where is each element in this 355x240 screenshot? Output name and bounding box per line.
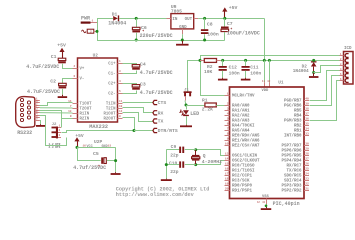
svg-text:SDI/RC4: SDI/RC4 bbox=[284, 178, 302, 183]
junction C10 left bbox=[165, 163, 168, 166]
svg-text:T1IN: T1IN bbox=[106, 103, 116, 107]
svg-text:V-: V- bbox=[80, 78, 85, 82]
supply +5V main bbox=[222, 5, 237, 18]
svg-text:12: 12 bbox=[119, 110, 123, 113]
junction U2P VCC bbox=[76, 146, 79, 149]
node TX flag bbox=[153, 119, 164, 125]
svg-text:PIC,40pin: PIC,40pin bbox=[273, 201, 300, 207]
capacitor C8 bbox=[201, 18, 219, 40]
wire DB9 pin2 to T1OUT bbox=[40, 103, 73, 106]
svg-text:17: 17 bbox=[225, 172, 229, 175]
svg-text:4.7uF/25VDC: 4.7uF/25VDC bbox=[27, 89, 60, 95]
svg-text:RD1/PSP1: RD1/PSP1 bbox=[232, 188, 252, 193]
svg-text:37: 37 bbox=[305, 112, 309, 115]
junction C6 bottom bbox=[135, 39, 138, 42]
svg-text:38: 38 bbox=[305, 107, 309, 110]
ground DB9 pin5 bbox=[36, 120, 45, 127]
supply +5V at C1 bbox=[57, 43, 66, 59]
svg-text:IN: IN bbox=[172, 18, 178, 22]
pin VSS bbox=[257, 199, 267, 205]
crystal Q bbox=[192, 150, 222, 165]
svg-text:15: 15 bbox=[108, 145, 112, 148]
wire DB9 pin4 loop bbox=[40, 116, 67, 146]
svg-text:32: 32 bbox=[267, 80, 271, 83]
wire J1 to LED node bbox=[185, 101, 186, 106]
svg-text:OUT: OUT bbox=[185, 18, 193, 22]
svg-text:MCLR#/THV: MCLR#/THV bbox=[232, 93, 255, 98]
capacitor C11 bbox=[242, 60, 262, 77]
capacitor C1 bbox=[26, 54, 66, 70]
svg-text:C2+: C2+ bbox=[108, 83, 116, 87]
junction LED node bbox=[185, 104, 188, 107]
svg-text:R1IN: R1IN bbox=[80, 113, 90, 117]
wire J2 pin2 to DTR/RTS bbox=[62, 131, 135, 133]
ICD pins bbox=[340, 53, 349, 82]
svg-text:MAX232: MAX232 bbox=[89, 124, 108, 130]
junction VDD second bbox=[268, 59, 271, 62]
MAX232 pin numbers bbox=[68, 60, 123, 118]
wire MCLR to ICD pin1 bbox=[201, 56, 340, 96]
voltage regulator UR 7805 bbox=[167, 4, 199, 34]
svg-text:11: 11 bbox=[119, 100, 123, 103]
junction PWR pin2 bbox=[96, 30, 99, 33]
connector X1 DB9 RS232 bbox=[16, 97, 35, 136]
ground crystal caps bbox=[161, 179, 172, 181]
wire R1OUT to TX bbox=[123, 113, 154, 122]
svg-text:30: 30 bbox=[305, 142, 309, 145]
svg-text:RD0/PSP0: RD0/PSP0 bbox=[232, 183, 252, 188]
DB9 pin numbers bbox=[36, 97, 38, 120]
svg-text:4-20MHz: 4-20MHz bbox=[202, 159, 222, 165]
svg-text:RC1/T1OSI: RC1/T1OSI bbox=[232, 168, 255, 173]
svg-text:C3: C3 bbox=[140, 81, 146, 87]
svg-text:RA0/AN0: RA0/AN0 bbox=[232, 103, 250, 108]
svg-text:RE1/WR#/AN6: RE1/WR#/AN6 bbox=[232, 138, 260, 143]
svg-text:ICD: ICD bbox=[344, 47, 352, 51]
U1 pin numbers bbox=[225, 92, 309, 190]
ground regulator bbox=[176, 41, 189, 46]
svg-text:Q: Q bbox=[203, 153, 206, 159]
svg-text:11: 11 bbox=[262, 80, 266, 83]
svg-text:39: 39 bbox=[305, 102, 309, 105]
svg-text:100uF/16VDC: 100uF/16VDC bbox=[227, 31, 260, 37]
wire DB9 pin8 to R1IN bbox=[40, 112, 73, 114]
svg-text:19: 19 bbox=[225, 182, 229, 185]
junction C8 top bbox=[203, 17, 206, 20]
svg-text:T2OUT: T2OUT bbox=[80, 108, 92, 112]
svg-text:OSC2/CLKOUT: OSC2/CLKOUT bbox=[232, 158, 260, 163]
svg-text:TX/RC6: TX/RC6 bbox=[287, 168, 302, 173]
LED LED1 bbox=[179, 105, 199, 125]
svg-text:+: + bbox=[142, 29, 144, 33]
junction C7 top bbox=[223, 17, 226, 20]
svg-text:VSS: VSS bbox=[262, 195, 270, 199]
diode D1 bbox=[108, 11, 126, 26]
svg-text:RB1: RB1 bbox=[294, 129, 302, 133]
wire OSC1 bbox=[196, 150, 225, 156]
svg-text:RB4: RB4 bbox=[294, 114, 302, 118]
wire C9 C10 ground bbox=[166, 150, 168, 179]
svg-text:25: 25 bbox=[305, 167, 309, 170]
junction C5 right bbox=[114, 159, 117, 162]
ground U2P bbox=[111, 172, 121, 175]
svg-text:C10: C10 bbox=[169, 160, 178, 166]
wire V- to C2 bbox=[63, 79, 73, 84]
capacitor C10 bbox=[166, 160, 195, 175]
svg-text:RA5/AN4: RA5/AN4 bbox=[232, 128, 250, 133]
U1 pin stubs bbox=[225, 96, 310, 191]
svg-text:23: 23 bbox=[305, 177, 309, 180]
svg-text:5: 5 bbox=[227, 117, 229, 120]
svg-text:TX: TX bbox=[158, 119, 164, 125]
svg-text:C12: C12 bbox=[229, 65, 238, 71]
svg-text:36: 36 bbox=[305, 117, 309, 120]
svg-text:C11: C11 bbox=[250, 65, 259, 71]
jumper J1 bbox=[184, 88, 192, 100]
junction D2 bottom bbox=[312, 71, 315, 74]
copyright text bbox=[116, 187, 210, 199]
svg-text:1N4004: 1N4004 bbox=[108, 20, 126, 26]
svg-text:2-3 RTS: 2-3 RTS bbox=[49, 146, 61, 149]
svg-text:GND: GND bbox=[102, 145, 108, 149]
svg-text:3: 3 bbox=[227, 107, 229, 110]
svg-text:13: 13 bbox=[225, 152, 229, 155]
svg-text:U1: U1 bbox=[278, 81, 284, 86]
capacitor C12 bbox=[219, 60, 240, 77]
svg-text:C1: C1 bbox=[51, 54, 57, 60]
svg-text:RB2: RB2 bbox=[294, 124, 302, 128]
junction VDD feed bbox=[263, 59, 266, 62]
svg-text:8: 8 bbox=[227, 132, 229, 135]
ground C12 bbox=[218, 78, 228, 81]
svg-text:+: + bbox=[230, 27, 232, 31]
wire ICD pin6 PGM bbox=[310, 81, 340, 121]
junction VSS bbox=[265, 205, 268, 208]
svg-text:+5V: +5V bbox=[229, 5, 238, 11]
svg-text:29: 29 bbox=[305, 147, 309, 150]
ground rail bottom bbox=[97, 40, 225, 42]
wire D1 to regulator input bbox=[119, 18, 166, 20]
svg-text:SDO/RC5: SDO/RC5 bbox=[284, 173, 302, 178]
svg-text:1: 1 bbox=[227, 92, 229, 95]
svg-text:+: + bbox=[98, 164, 100, 168]
svg-text:2: 2 bbox=[90, 31, 92, 34]
svg-text:PWR: PWR bbox=[81, 16, 90, 22]
svg-text:R2OUT: R2OUT bbox=[104, 118, 116, 122]
svg-text:33: 33 bbox=[305, 132, 309, 135]
svg-text:10: 10 bbox=[225, 142, 229, 145]
svg-text:4.7uF/25VDC: 4.7uF/25VDC bbox=[26, 64, 59, 70]
wire top rail to D1 bbox=[97, 18, 113, 20]
svg-text:R1OUT: R1OUT bbox=[104, 113, 116, 117]
MAX232 pin labels bbox=[80, 63, 116, 122]
svg-text:PSP5/RD5: PSP5/RD5 bbox=[282, 153, 302, 158]
ic U1 PIC 40pin box bbox=[230, 81, 305, 207]
svg-text:PSP6/RD6: PSP6/RD6 bbox=[282, 148, 302, 153]
svg-text:100n: 100n bbox=[207, 31, 219, 37]
svg-text:RE0/RD#/AN5: RE0/RD#/AN5 bbox=[232, 133, 260, 138]
svg-text:2: 2 bbox=[227, 102, 229, 105]
svg-text:V+: V+ bbox=[80, 68, 85, 72]
wire DB9 pin7 to T2OUT bbox=[40, 107, 73, 109]
svg-text:35: 35 bbox=[305, 122, 309, 125]
svg-text:+5V: +5V bbox=[57, 43, 66, 49]
svg-text:RE2/CS#/AN7: RE2/CS#/AN7 bbox=[232, 143, 260, 148]
svg-text:RC3/SCK: RC3/SCK bbox=[232, 178, 250, 183]
junction C8 bottom bbox=[203, 39, 206, 42]
wire from PWR jack bbox=[97, 19, 99, 41]
diode D2 bbox=[293, 61, 317, 74]
resistor R2 bbox=[200, 59, 221, 75]
ground D2 bbox=[309, 73, 319, 78]
svg-text:C1-: C1- bbox=[108, 73, 115, 77]
capacitor C2 bbox=[27, 79, 66, 96]
wire U2P VCC down to C5 bbox=[77, 147, 79, 160]
svg-text:RX: RX bbox=[158, 111, 164, 117]
svg-text:PSP2/RD2: PSP2/RD2 bbox=[282, 188, 302, 193]
ground C11 bbox=[241, 78, 251, 81]
svg-text:LED: LED bbox=[190, 111, 199, 117]
junction C6 top bbox=[135, 17, 138, 20]
svg-text:DTR/RTS: DTR/RTS bbox=[158, 128, 178, 134]
wire +5V rail bbox=[198, 18, 264, 20]
svg-text:4.7uf/25VDC: 4.7uf/25VDC bbox=[73, 165, 106, 171]
svg-text:7: 7 bbox=[227, 127, 229, 130]
svg-text:OSC1/CLKIN: OSC1/CLKIN bbox=[232, 153, 257, 158]
svg-text:27: 27 bbox=[305, 157, 309, 160]
svg-text:C8: C8 bbox=[207, 22, 213, 28]
capacitor C3 bbox=[123, 81, 173, 96]
wire VSS ground bbox=[266, 204, 268, 207]
svg-text:C2: C2 bbox=[50, 79, 56, 85]
wire R2IN to J2 net bbox=[62, 118, 73, 120]
wire R2OUT to DTR/RTS bbox=[123, 118, 135, 131]
jumper J2 bbox=[49, 123, 62, 149]
svg-text:RS232: RS232 bbox=[17, 130, 32, 136]
wire T1IN to CTS bbox=[123, 102, 154, 104]
junction crystal top bbox=[194, 148, 197, 151]
pin numbers VDD bbox=[262, 80, 271, 83]
svg-text:RA3/AN3: RA3/AN3 bbox=[232, 118, 250, 123]
node RX flag bbox=[153, 111, 164, 117]
svg-text:4.7uF/25VDC: 4.7uF/25VDC bbox=[140, 70, 173, 76]
svg-text:4: 4 bbox=[227, 112, 229, 115]
wire C1 to V+ bbox=[62, 68, 73, 70]
svg-text:RB5: RB5 bbox=[294, 109, 302, 113]
svg-text:20: 20 bbox=[225, 187, 229, 190]
svg-text:34: 34 bbox=[305, 127, 309, 130]
wire U2P GND down bbox=[115, 147, 117, 172]
wire VDD pin11 bbox=[264, 60, 266, 86]
svg-text:1N4004: 1N4004 bbox=[293, 69, 309, 74]
capacitor C6 bbox=[132, 18, 172, 40]
wire ICD pin3 gnd bbox=[314, 66, 340, 73]
svg-text:C1+: C1+ bbox=[108, 63, 116, 67]
svg-text:VDD: VDD bbox=[262, 89, 270, 93]
junction regulator GND bbox=[181, 39, 184, 42]
wire MCLR bbox=[200, 95, 225, 97]
svg-text:24: 24 bbox=[305, 172, 309, 175]
capacitor C9 bbox=[166, 144, 195, 159]
svg-text:4.7uF/25VDC: 4.7uF/25VDC bbox=[140, 90, 173, 96]
svg-text:PGC/RB6: PGC/RB6 bbox=[284, 103, 302, 108]
svg-text:J2: J2 bbox=[52, 123, 57, 127]
svg-text:RA2/AN2: RA2/AN2 bbox=[232, 113, 250, 118]
node CTS flag bbox=[153, 100, 166, 106]
svg-text:D1: D1 bbox=[112, 11, 118, 17]
svg-text:22: 22 bbox=[305, 182, 309, 185]
svg-text:C4: C4 bbox=[140, 61, 146, 67]
capacitor C5 bbox=[73, 151, 115, 171]
svg-text:220uF/25VDC: 220uF/25VDC bbox=[140, 33, 173, 39]
wire OSC2 bbox=[196, 161, 225, 165]
svg-text:6: 6 bbox=[227, 122, 229, 125]
resistor R1 bbox=[186, 98, 225, 113]
ground LED bbox=[180, 125, 192, 127]
wire ICD pin5 PGC bbox=[310, 76, 340, 106]
svg-text:14: 14 bbox=[225, 157, 229, 160]
svg-text:28: 28 bbox=[305, 152, 309, 155]
svg-text:13: 13 bbox=[68, 110, 72, 113]
svg-text:100n: 100n bbox=[250, 70, 261, 76]
ground C2 bbox=[58, 95, 68, 98]
svg-text:C2-: C2- bbox=[108, 93, 115, 97]
svg-text:RX/RC7: RX/RC7 bbox=[287, 163, 302, 168]
svg-text:21: 21 bbox=[305, 187, 309, 190]
wire VDD rail right bbox=[221, 60, 340, 62]
svg-text:VCC: VCC bbox=[87, 145, 93, 149]
svg-text:16: 16 bbox=[225, 167, 229, 170]
ground VSS bbox=[261, 207, 272, 210]
svg-text:INT/RB0: INT/RB0 bbox=[284, 133, 302, 138]
svg-text:PGM/RB3: PGM/RB3 bbox=[284, 118, 302, 123]
svg-text:PSP4/RD4: PSP4/RD4 bbox=[282, 158, 302, 163]
svg-text:10: 10 bbox=[119, 105, 123, 108]
wire +5V to VDD rail bbox=[264, 18, 266, 60]
wire regulator GND bbox=[182, 34, 184, 40]
capacitor C4 bbox=[123, 61, 173, 75]
junction crystal bottom bbox=[194, 163, 197, 166]
svg-text:1: 1 bbox=[92, 19, 94, 22]
connector ICD bbox=[344, 47, 354, 84]
svg-text:T1OUT: T1OUT bbox=[80, 103, 92, 107]
svg-text:9: 9 bbox=[227, 137, 229, 140]
svg-text:18: 18 bbox=[225, 177, 229, 180]
svg-text:PGD/RB7: PGD/RB7 bbox=[284, 98, 302, 103]
op-amp U2 MAX232 box bbox=[78, 54, 118, 130]
junction C12 top bbox=[221, 59, 224, 62]
junction DTR/RTS bbox=[133, 129, 136, 132]
svg-text:40: 40 bbox=[305, 97, 309, 100]
svg-text:T2IN: T2IN bbox=[106, 108, 116, 112]
wire ICD pin4 PGD bbox=[310, 71, 340, 101]
svg-text:22p: 22p bbox=[170, 153, 179, 159]
supply +5V at U2P bbox=[74, 133, 84, 148]
svg-text:+5V: +5V bbox=[75, 133, 84, 139]
capacitor C7 bbox=[221, 18, 260, 40]
U1 pin labels bbox=[232, 93, 302, 193]
wire VDD rail bbox=[187, 61, 200, 92]
power pins U2P bbox=[77, 139, 116, 149]
junction R2 left bbox=[199, 59, 202, 62]
node DTR/RTS flag bbox=[153, 128, 178, 134]
svg-text:22p: 22p bbox=[170, 169, 179, 175]
svg-text:2.2K: 2.2K bbox=[202, 107, 213, 113]
svg-text:RA1/AN1: RA1/AN1 bbox=[232, 108, 250, 113]
wire VDD pin32 bbox=[269, 60, 271, 86]
svg-text:15: 15 bbox=[225, 162, 229, 165]
wire T2IN to RX bbox=[123, 108, 154, 113]
svg-text:R2IN: R2IN bbox=[80, 118, 90, 122]
svg-text:http://www.olimex.com/dev: http://www.olimex.com/dev bbox=[116, 192, 195, 198]
svg-text:26: 26 bbox=[305, 162, 309, 165]
svg-text:PSP3/RD3: PSP3/RD3 bbox=[282, 183, 302, 188]
svg-text:10K: 10K bbox=[204, 69, 213, 75]
wire DB9 pin3 to J2 bbox=[40, 111, 62, 128]
svg-text:RC2/CCP1: RC2/CCP1 bbox=[232, 173, 252, 178]
svg-text:C5: C5 bbox=[93, 151, 99, 157]
svg-text:CTS: CTS bbox=[158, 100, 167, 106]
MAX232 pin stubs bbox=[73, 64, 123, 119]
power connector PWR bbox=[81, 16, 97, 34]
svg-text:RA4/T0CKI: RA4/T0CKI bbox=[232, 123, 255, 128]
svg-text:PSP7/RD7: PSP7/RD7 bbox=[282, 143, 302, 148]
junction C11 top bbox=[244, 59, 247, 62]
junction D2 top bbox=[312, 59, 315, 62]
svg-text:GND: GND bbox=[179, 26, 187, 30]
DB9 pin stubs bbox=[35, 101, 40, 121]
svg-text:100n: 100n bbox=[229, 70, 240, 76]
wire DTR/RTS to flag bbox=[134, 130, 153, 132]
svg-text:RC0/T1OSO: RC0/T1OSO bbox=[232, 163, 255, 168]
